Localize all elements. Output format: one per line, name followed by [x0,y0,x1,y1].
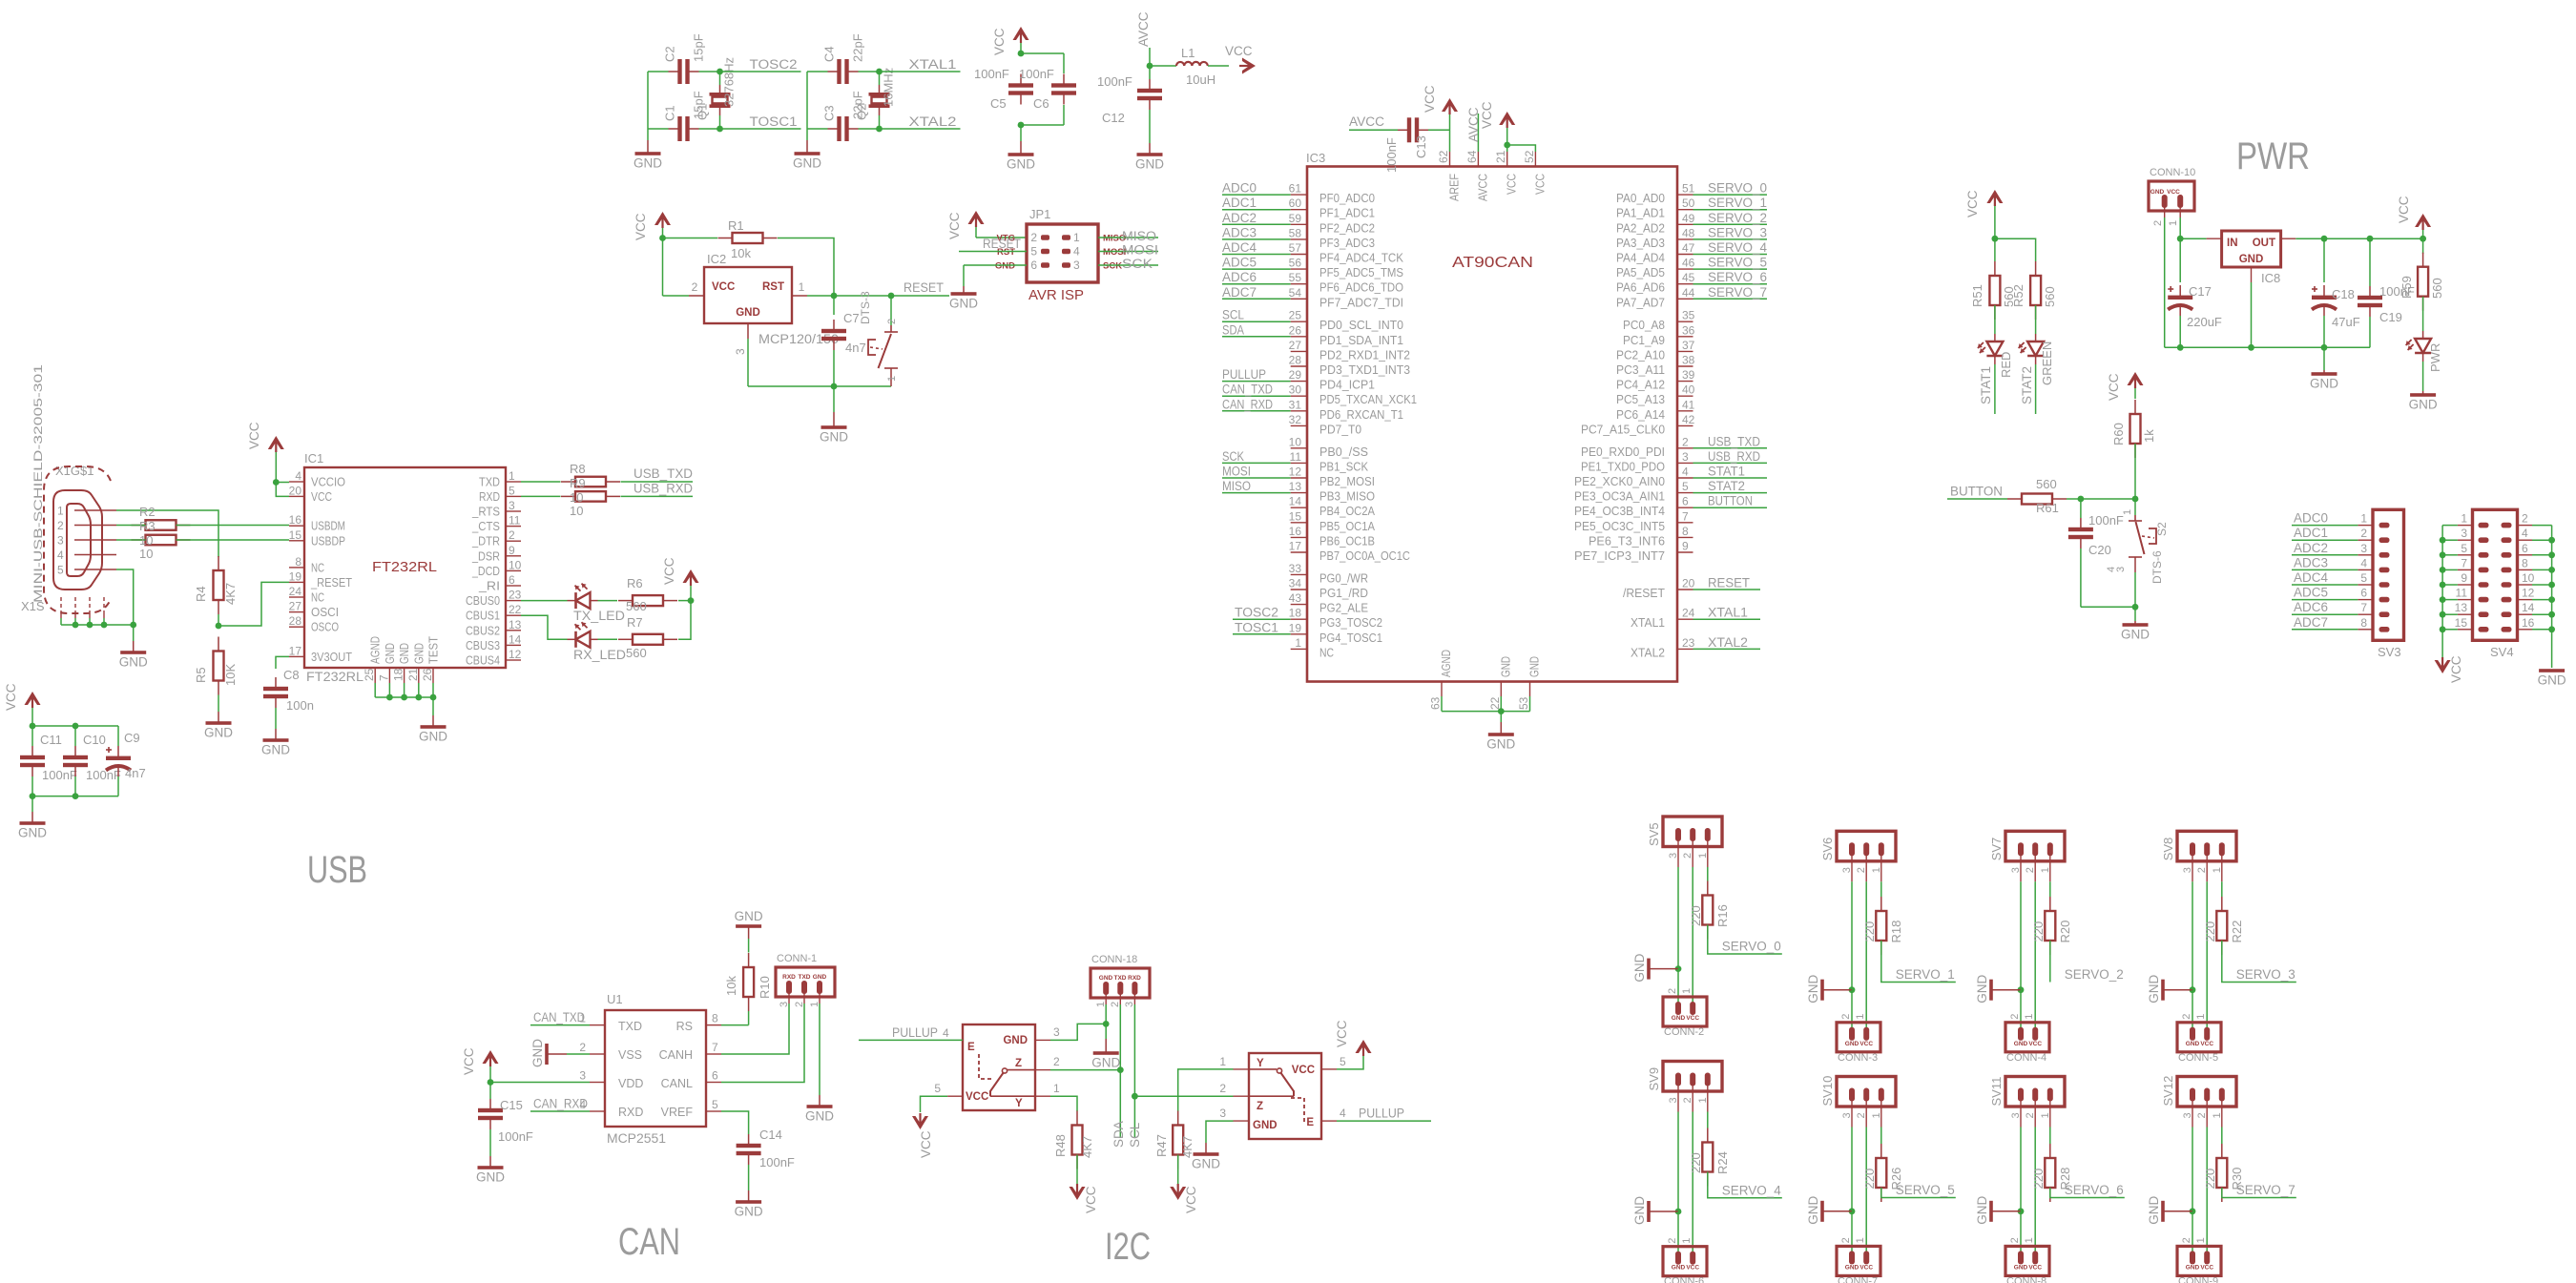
svg-text:AT90CAN: AT90CAN [1452,255,1533,271]
svg-text:GND: GND [735,1205,763,1219]
wire [1880,881,1882,897]
capacitor C2 [663,33,706,84]
wire [1050,1024,1106,1040]
svg-text:DTS-6: DTS-6 [2150,550,2164,584]
junction [273,479,280,486]
wire [1994,305,1996,334]
svg-text:16: 16 [2522,616,2535,630]
svg-text:3: 3 [2010,867,2022,873]
resistor R26 [1862,1144,1903,1202]
svg-text:1: 1 [2461,512,2467,526]
svg-text:ADC2: ADC2 [2294,541,2328,555]
pin 55 PF6_ADC6_TDO [1289,271,1404,295]
svg-text:220: 220 [1862,921,1877,942]
svg-text:PA1_AD1: PA1_AD1 [1616,207,1665,220]
wire [2532,584,2552,586]
wire [833,296,835,315]
svg-text:PB6_OC1B: PB6_OC1B [1319,534,1375,548]
wire [275,708,277,729]
wire [1693,492,1768,494]
pin 1 TXD [479,469,521,489]
svg-text:PF0_ADC0: PF0_ADC0 [1319,192,1375,205]
pin 3 [1035,1025,1060,1040]
pin pads row 3 [1030,259,1080,272]
svg-text:GND: GND [1632,953,1647,982]
pin 1 [792,280,807,296]
svg-text:NC: NC [1319,646,1334,659]
connector SV11 [1989,1077,2065,1119]
svg-text:2: 2 [2152,220,2164,226]
svg-text:3: 3 [1124,1002,1135,1007]
connector SV5 [1647,817,1722,859]
svg-text:I2C: I2C [1105,1226,1151,1268]
svg-text:TX_LED: TX_LED [573,609,625,623]
svg-text:SERVO_0: SERVO_0 [1722,940,1781,954]
power VCC [634,212,671,240]
wire [663,295,690,297]
svg-text:6: 6 [712,1069,718,1083]
wire [2179,207,2181,238]
pin 18 GND [392,643,412,683]
connector SV9 [1647,1062,1722,1104]
svg-text:560: 560 [2036,477,2057,491]
svg-text:18: 18 [392,668,405,681]
wire [1021,52,1064,54]
wire [2222,941,2296,983]
svg-text:4n7: 4n7 [125,766,146,780]
svg-text:GND: GND [1486,737,1515,752]
svg-text:R24: R24 [1715,1151,1730,1174]
svg-text:2: 2 [1682,435,1689,448]
svg-text:3: 3 [509,499,515,512]
resistor R61 [2007,477,2067,515]
junction [876,126,883,133]
pin 2 [1865,855,1867,881]
svg-text:CONN-18: CONN-18 [1091,954,1137,965]
capacitor C12 [1097,74,1162,125]
resistor R51 [1970,261,2016,320]
ground [735,909,763,939]
resistor R60 [2111,400,2156,458]
pin 56 PF5_ADC5_TMS [1289,257,1403,280]
wire [1222,381,1291,383]
pin 2 [2206,855,2208,881]
svg-text:SERVO_2: SERVO_2 [2065,967,2124,982]
junction [2177,344,2184,351]
resistor R24 [1689,1128,1730,1187]
svg-text:49: 49 [1682,212,1695,225]
pin 23 XTAL2 [1631,636,1695,660]
wire [177,539,290,541]
pin 2 [2358,527,2389,543]
svg-text:CONN-3: CONN-3 [1838,1052,1878,1064]
svg-text:63: 63 [1429,696,1443,710]
svg-text:23: 23 [1682,636,1695,650]
wire [1506,126,1508,152]
svg-text:GND: GND [419,730,447,744]
svg-text:MOSI: MOSI [1222,465,1251,479]
svg-text:10K: 10K [223,664,238,686]
resistor R47 [1154,1111,1195,1169]
connector CONN-3 [1837,1014,1880,1064]
svg-text:5: 5 [2461,542,2467,555]
wire [2532,525,2552,527]
junction [30,723,36,730]
wire [2369,238,2371,286]
pin 52 VCC [1523,150,1548,195]
wire [2192,1211,2193,1252]
junction [2548,551,2555,558]
wire [1693,477,1768,479]
svg-text:STAT1: STAT1 [1979,366,1993,404]
svg-text:CONN-8: CONN-8 [2006,1275,2046,1283]
junction [2420,236,2426,242]
junction [1849,986,1856,993]
svg-text:R10: R10 [758,976,772,999]
pin 24 XTAL1 [1631,607,1695,631]
svg-text:5: 5 [509,484,515,497]
svg-text:27: 27 [289,600,302,613]
svg-text:CBUS1: CBUS1 [466,610,500,623]
svg-text:PB0_/SS: PB0_/SS [1319,445,1368,459]
pin 3 [1851,855,1853,881]
svg-text:R20: R20 [2058,921,2072,943]
svg-text:GND: GND [530,1039,545,1067]
svg-text:14: 14 [2522,601,2535,614]
svg-text:Y: Y [1257,1058,1264,1069]
svg-text:1: 1 [1073,231,1080,244]
power VCC [247,422,284,482]
svg-text:10: 10 [139,533,153,548]
svg-text:GND: GND [735,909,763,923]
svg-text:220: 220 [2031,921,2046,942]
wire [1149,66,1151,79]
svg-text:SCK: SCK [1222,449,1244,464]
svg-text:R7: R7 [627,615,643,630]
svg-text:_RTS: _RTS [471,506,500,519]
pin 6 [2502,542,2533,558]
junction [2440,626,2446,632]
svg-text:SERVO_3: SERVO_3 [1708,225,1767,239]
wire [2442,554,2458,556]
svg-text:4: 4 [2522,527,2528,540]
svg-text:NC: NC [311,561,324,574]
svg-text:PG4_TOSC1: PG4_TOSC1 [1319,631,1382,645]
power VCC [2397,196,2431,238]
svg-text:PG2_ALE: PG2_ALE [1319,602,1368,615]
wire [489,1129,491,1156]
svg-text:6: 6 [509,573,515,587]
svg-text:VREF: VREF [661,1106,694,1119]
svg-text:3: 3 [1053,1025,1060,1039]
svg-text:9: 9 [509,544,515,557]
svg-text:PD0_SCL_INT0: PD0_SCL_INT0 [1319,319,1403,332]
wire [2323,347,2325,370]
svg-text:PE7_ICP3_INT7: PE7_ICP3_INT7 [1574,549,1665,563]
node SCK [1098,257,1158,271]
pin 8 PE6_T3_INT6 [1589,525,1693,548]
svg-text:STAT2: STAT2 [1708,479,1745,493]
svg-text:PA3_AD3: PA3_AD3 [1616,237,1665,250]
wire [61,624,134,626]
resistor R48 [1053,1111,1094,1169]
wire [2422,362,2424,391]
power VCC [1965,190,2003,238]
svg-text:R2: R2 [139,505,156,519]
svg-text:GND: GND [119,655,148,670]
svg-text:VSS: VSS [618,1048,642,1062]
wire [1449,112,1451,152]
svg-text:CONN-1: CONN-1 [777,953,817,964]
pin 3 [2020,1101,2022,1128]
svg-text:560: 560 [2430,278,2444,299]
ground [1007,141,1035,172]
svg-text:RESET: RESET [1708,576,1750,590]
svg-text:15: 15 [289,528,302,542]
capacitor C19 [2358,284,2415,324]
pin 17 PB7_OC0A_OC1C [1289,540,1410,564]
svg-text:JP1: JP1 [1029,207,1050,221]
svg-text:GND: GND [1672,1265,1686,1272]
svg-text:PD7_T0: PD7_T0 [1319,423,1361,436]
ground [820,412,848,445]
svg-text:43: 43 [1289,591,1302,605]
junction [488,1079,494,1086]
wire [1507,145,1536,152]
svg-text:C19: C19 [2379,310,2402,324]
svg-text:AVR ISP: AVR ISP [1028,288,1084,303]
svg-text:2: 2 [2025,867,2036,873]
ground [2538,669,2566,687]
svg-text:33: 33 [1289,562,1302,575]
junction [2440,596,2446,603]
svg-text:SV7: SV7 [1989,838,2004,861]
svg-text:SV11: SV11 [1989,1077,2004,1107]
svg-text:PC2_A10: PC2_A10 [1616,348,1665,362]
svg-text:R5: R5 [194,667,208,683]
svg-text:3: 3 [1073,259,1080,272]
svg-text:XTAL2: XTAL2 [1708,635,1748,650]
svg-text:54: 54 [1289,286,1302,300]
svg-text:1: 1 [799,280,805,294]
svg-text:_RI: _RI [478,580,500,593]
wire [2192,881,2193,989]
svg-text:3: 3 [2360,542,2367,555]
pin 42 PC7_A15_CLK0 [1581,413,1695,437]
svg-text:CAN_TXD: CAN_TXD [533,1010,585,1024]
svg-text:ADC5: ADC5 [1222,256,1257,270]
pin 3 [1219,1107,1249,1121]
svg-text:10k: 10k [731,246,751,260]
svg-text:RXD: RXD [782,974,796,981]
svg-text:2: 2 [1053,1055,1060,1068]
connector CONN-2 [1663,988,1707,1038]
svg-text:PB3_MISO: PB3_MISO [1319,490,1375,504]
svg-text:100nF: 100nF [1384,137,1399,173]
svg-text:12: 12 [1289,466,1302,479]
ic analog switch right [1249,1053,1321,1139]
svg-text:220: 220 [2031,1169,2046,1190]
pin 3 PE1_TXD0_PDO [1581,450,1693,474]
svg-text:2: 2 [886,319,898,324]
svg-text:SERVO_2: SERVO_2 [1708,211,1767,225]
pin 16 USBDM [289,513,345,533]
pin 40 PC5_A13 [1616,383,1695,407]
svg-text:GND: GND [1253,1120,1278,1131]
power VCC [1170,1184,1198,1213]
pin 14 [2502,601,2535,617]
svg-text:TOSC1: TOSC1 [750,114,798,129]
wire [748,939,750,953]
wire [2034,881,2036,1028]
svg-text:GND: GND [2147,974,2161,1003]
wire [2292,629,2358,631]
svg-text:1: 1 [1855,1237,1866,1243]
svg-text:10: 10 [570,504,583,518]
wire [1692,867,1693,1003]
svg-text:56: 56 [1289,257,1302,270]
wire [32,725,118,727]
svg-text:GND: GND [2014,1264,2028,1271]
connector SV10 [1820,1076,1896,1119]
svg-text:VCC: VCC [1859,1264,1873,1271]
svg-text:USBDM: USBDM [311,520,345,533]
svg-text:11: 11 [2456,587,2468,600]
wire [1693,238,1768,240]
svg-text:2: 2 [1682,853,1693,859]
ground [634,140,662,171]
wire [1693,223,1768,225]
wire [1149,110,1151,143]
switch S1 [859,291,898,386]
svg-text:1: 1 [2122,509,2133,515]
svg-text:USB_TXD: USB_TXD [1708,434,1760,448]
svg-text:6: 6 [1030,259,1037,272]
svg-text:VCC: VCC [2200,1041,2213,1047]
wire [2292,525,2358,527]
svg-text:CONN-4: CONN-4 [2006,1052,2046,1064]
svg-text:SV12: SV12 [2161,1076,2175,1107]
wire [1222,254,1291,256]
svg-text:19: 19 [1289,621,1302,634]
junction [386,694,393,701]
svg-text:PF6_ADC6_TDO: PF6_ADC6_TDO [1319,281,1403,295]
wire [1063,53,1065,73]
svg-text:220: 220 [1862,1169,1877,1190]
wire [2251,282,2253,347]
connector SV6 [1820,831,1896,873]
svg-text:13: 13 [1289,480,1302,493]
wire [976,237,1027,238]
svg-text:2: 2 [1682,1097,1693,1103]
svg-text:OSCO: OSCO [311,621,339,634]
svg-text:X1S: X1S [21,599,45,613]
pin 26 PD1_SDA_INT1 [1289,323,1403,347]
pin 38 PC3_A11 [1616,354,1695,378]
svg-text:3: 3 [734,348,747,355]
svg-text:9: 9 [1682,540,1689,553]
svg-text:R8: R8 [570,462,586,476]
junction [2440,537,2446,544]
svg-text:4n7: 4n7 [845,341,866,355]
wire [1021,124,1064,126]
junction [2078,496,2085,503]
junction [2548,611,2555,618]
junction [1147,63,1153,70]
wire [1119,994,1121,1138]
junction [831,293,838,300]
pin 19 _RESET [289,569,353,590]
pin 1 [1707,840,1709,867]
pin 12 CBUS4 [466,648,522,668]
svg-text:AREF: AREF [1448,174,1462,201]
svg-text:1: 1 [1855,1014,1866,1020]
wire [1222,238,1291,240]
wire [598,638,618,640]
ic analog switch left [963,1024,1035,1110]
ground [1806,1196,1852,1225]
pin 9 _DSR [471,544,521,564]
wire [31,726,33,746]
wire [719,72,721,85]
wire [116,510,218,557]
wire [748,1011,750,1025]
power VCC [1070,1184,1099,1213]
pin 7 [2458,556,2489,572]
svg-text:PULLUP: PULLUP [892,1025,938,1040]
wire [721,993,804,1083]
capacitor C14 [737,1128,795,1169]
label R8 R9 10 10 [570,462,586,518]
ground [1486,722,1515,752]
node CAN_TXD [530,1010,590,1025]
resistor R20 [2031,897,2072,955]
svg-text:15pF: 15pF [692,33,706,62]
svg-text:VCC: VCC [2397,196,2411,223]
svg-text:35: 35 [1682,309,1695,322]
pin 1 [2049,1101,2051,1128]
svg-text:C14: C14 [759,1128,782,1142]
wire [2134,607,2136,621]
capacitor C8 [263,677,314,713]
wire [720,128,801,130]
svg-text:6: 6 [2522,542,2528,555]
svg-text:100nF: 100nF [1019,67,1054,81]
svg-text:C18: C18 [2332,287,2355,301]
svg-text:CBUS3: CBUS3 [466,639,500,652]
wire [375,683,433,697]
wire [1222,395,1291,397]
svg-text:2: 2 [2181,1014,2192,1020]
svg-text:VCC: VCC [462,1047,476,1075]
svg-text:RXD: RXD [479,490,500,504]
wire [521,615,568,639]
pin 39 PC4_A12 [1616,368,1695,392]
svg-text:SV5: SV5 [1647,822,1661,846]
svg-text:C3: C3 [822,105,837,121]
wire [1881,1188,1956,1198]
svg-text:46: 46 [1682,257,1695,270]
svg-text:3: 3 [1668,1097,1679,1103]
svg-text:13: 13 [509,618,522,631]
pin 8 [2358,616,2389,632]
svg-text:TEST: TEST [427,636,441,664]
wire [2035,305,2037,334]
wire [621,481,694,483]
pin 13 PB3_MISO [1289,480,1376,504]
svg-text:VCC: VCC [947,212,962,239]
resistor R59 [2399,253,2444,311]
